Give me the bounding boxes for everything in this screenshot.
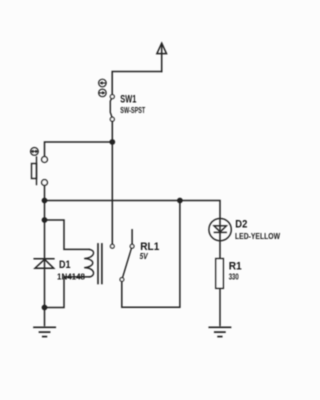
svg-text:1N4148: 1N4148 xyxy=(57,272,86,281)
junction dot right rail xyxy=(177,198,183,204)
wire coil top branch xyxy=(45,220,90,249)
wire coil bottom branch xyxy=(45,277,90,308)
power symbol VCC arrow xyxy=(157,43,167,71)
SW1 toggle arrow up xyxy=(99,79,107,87)
svg-text:SW1: SW1 xyxy=(120,94,136,106)
relay contact stub pin xyxy=(131,230,133,245)
svg-text:R1: R1 xyxy=(229,260,242,272)
switch SW1 lever xyxy=(110,98,112,117)
pushbutton toggle arrow xyxy=(30,148,38,156)
svg-text:5V: 5V xyxy=(140,252,149,261)
wire left column diode branch to ground xyxy=(44,201,46,326)
junction dot bottom left xyxy=(42,305,48,311)
junction dot coil branch xyxy=(42,217,48,223)
svg-text:SW-SPST: SW-SPST xyxy=(120,106,145,115)
switch SW1 terminals xyxy=(110,95,114,99)
relay contact lever xyxy=(123,248,132,278)
relay contact pole terminal xyxy=(110,244,114,248)
relay contact fixed terminal xyxy=(130,244,134,248)
pushbutton terminals xyxy=(42,157,48,163)
wire SW1 bottom down through junction and crossing to relay pole xyxy=(111,121,113,244)
wire button bottom to mid rail xyxy=(44,186,46,201)
junction dot left rail xyxy=(42,198,48,204)
LED D2 xyxy=(209,218,231,240)
SW1 toggle arrow down xyxy=(99,89,107,97)
relay core lines xyxy=(97,244,99,284)
svg-text:LED-YELLOW: LED-YELLOW xyxy=(235,232,280,241)
svg-text:330: 330 xyxy=(229,272,239,281)
resistor R1 xyxy=(216,259,224,289)
svg-text:D1: D1 xyxy=(59,259,71,271)
wire from power arrow to SW1 top xyxy=(112,72,162,95)
relay contact bottom terminal xyxy=(120,278,124,282)
wire button top rail xyxy=(45,142,113,157)
ground left xyxy=(34,327,55,336)
svg-text:D2: D2 xyxy=(235,218,247,230)
pushbutton actuator xyxy=(32,157,37,185)
ground right xyxy=(209,327,230,336)
wire right branch from rail to contact bottom xyxy=(122,201,180,308)
wire mid rail to LED column down to ground xyxy=(45,201,221,326)
relay RL1 coil xyxy=(84,249,93,277)
junction dot top (SW1 / button rail) xyxy=(109,139,115,145)
diode D1 xyxy=(34,259,54,268)
